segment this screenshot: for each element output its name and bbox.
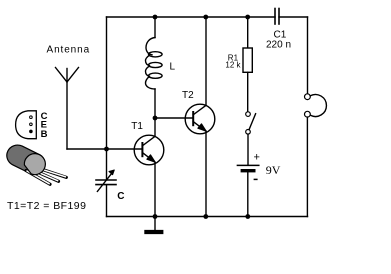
earphone jack terminals [305, 94, 327, 117]
inductor L [146, 17, 163, 136]
transistor package 3D drawing [7, 145, 66, 184]
svg-text:C: C [117, 191, 124, 202]
svg-text:Antenna: Antenna [47, 45, 91, 56]
svg-text:T1=T2 = BF199: T1=T2 = BF199 [7, 200, 86, 212]
wire T2 emitter down [205, 131, 207, 216]
svg-text:T1: T1 [131, 121, 143, 132]
svg-text:12 k: 12 k [225, 61, 241, 70]
battery 9V [237, 165, 258, 216]
switch S1 [246, 112, 256, 165]
wire T1 base [107, 148, 143, 150]
variable capacitor C [96, 170, 116, 191]
wire left vertical lower [106, 185, 108, 217]
resistor R1 [243, 17, 252, 112]
svg-text:T2: T2 [182, 90, 194, 101]
pin B [30, 130, 33, 133]
node: T2 base junction [153, 116, 158, 121]
node: bottom rail / T1 emitter / ground junction [153, 214, 158, 219]
wire T2 collector up [205, 17, 207, 105]
node: top rail / inductor junction [153, 15, 158, 20]
wire T2 base [155, 117, 193, 119]
node: bottom rail / T2 emitter junction [203, 214, 208, 219]
pin C [30, 116, 33, 119]
TO-92 pinout outline [16, 111, 37, 139]
wire bottom rail [107, 216, 308, 218]
svg-text:B: B [41, 129, 48, 140]
node: top rail / T2 collector junction [203, 15, 208, 20]
wire right vertical lower [306, 117, 308, 216]
wire top rail left segment [107, 16, 276, 18]
antenna [56, 68, 79, 150]
svg-text:9V: 9V [266, 163, 281, 177]
label battery minus [254, 178, 258, 180]
transistor T1 [134, 135, 164, 165]
ground [144, 217, 163, 233]
wire T1 emitter down [154, 162, 156, 216]
transistor T2 [185, 104, 215, 134]
node: top rail / R1 junction [245, 15, 250, 20]
node: bottom rail / battery junction [245, 214, 250, 219]
wire antenna to junction [67, 148, 107, 150]
svg-text:+: + [254, 152, 260, 164]
wire right vertical upper [307, 17, 309, 94]
capacitor C1 [275, 9, 279, 25]
wire left vertical upper [106, 17, 108, 180]
svg-text:L: L [170, 62, 176, 73]
node: antenna / T1 base junction [104, 147, 109, 152]
pin E [30, 123, 33, 126]
svg-text:220 n: 220 n [266, 40, 291, 51]
wire top rail right segment [279, 16, 308, 18]
